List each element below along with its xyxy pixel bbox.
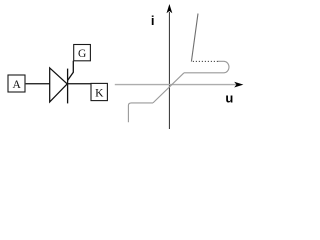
forward blocking segment with breakover hook xyxy=(184,61,229,73)
cathode bar xyxy=(67,69,69,104)
svg-text:A: A xyxy=(13,79,22,91)
on-state segment xyxy=(191,14,198,62)
cathode wire xyxy=(68,83,91,85)
reverse-to-forward diagonal segment xyxy=(153,73,184,103)
u axis xyxy=(115,84,237,86)
reverse breakdown segment xyxy=(128,103,153,122)
svg-text:u: u xyxy=(225,90,233,105)
terminal box G xyxy=(74,45,91,61)
terminal box K xyxy=(91,83,107,100)
i axis arrowhead xyxy=(167,4,173,13)
svg-text:i: i xyxy=(151,13,155,28)
svg-text:G: G xyxy=(78,48,86,60)
i axis xyxy=(168,12,170,129)
u axis arrowhead xyxy=(234,82,243,88)
svg-text:K: K xyxy=(95,87,104,99)
terminal box A xyxy=(8,75,25,92)
anode wire xyxy=(26,83,50,85)
breakover dotted transition xyxy=(191,60,218,62)
gate lead xyxy=(68,61,74,81)
thyristor triangle xyxy=(50,68,67,102)
